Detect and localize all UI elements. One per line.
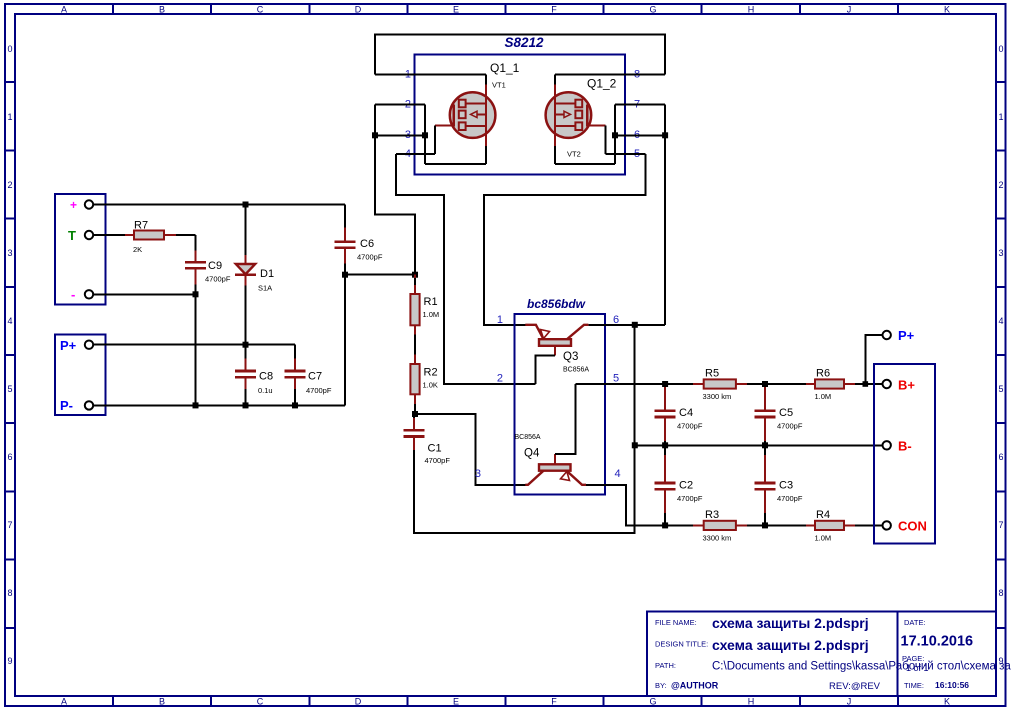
wire pin6 row (615, 134, 665, 136)
terminal + (85, 200, 93, 208)
svg-text:4700pF: 4700pF (306, 386, 332, 395)
wire + rail (93, 205, 345, 228)
S8212 component box (415, 55, 626, 175)
capacitor C4 (655, 387, 703, 445)
capacitor C7 (284, 359, 331, 396)
wire Q3 base to pin2 row (535, 355, 555, 384)
node R2/C1/Q4-emitter (412, 411, 418, 417)
svg-text:bc856bdw: bc856bdw (527, 297, 586, 311)
svg-text:R3: R3 (705, 509, 719, 521)
svg-text:R1: R1 (424, 296, 438, 308)
wire R7 to C9 (176, 235, 196, 251)
svg-text:4700pF: 4700pF (425, 456, 451, 465)
svg-text:1.0K: 1.0K (423, 381, 438, 390)
terminal B+ (883, 378, 916, 393)
svg-text:1.0M: 1.0M (815, 392, 832, 401)
S8212 dual-MOSFET block U1 (375, 35, 665, 175)
svg-text:F: F (551, 5, 557, 15)
svg-text:3300 km: 3300 km (703, 534, 732, 543)
svg-text:K: K (944, 5, 950, 15)
wire right inner vertical (pin7 to source rail) (555, 105, 615, 165)
svg-text:4700pF: 4700pF (205, 275, 231, 284)
wire pin7 row (615, 104, 665, 106)
wire junction to Q4 emitter (bc856 pin3) (415, 414, 525, 485)
svg-text:A: A (61, 697, 67, 707)
svg-text:C8: C8 (259, 371, 273, 383)
wire - rail (93, 293, 195, 295)
svg-text:B-: B- (898, 439, 912, 454)
svg-text:Q1_2: Q1_2 (587, 77, 617, 91)
node pin6 left (612, 132, 618, 138)
capacitor C9 (185, 251, 231, 285)
svg-text:BC856A: BC856A (563, 367, 589, 374)
wire pin5/B+ row (575, 383, 693, 385)
svg-text:D: D (355, 697, 362, 707)
svg-text:0: 0 (998, 44, 1003, 54)
capacitor C8 (235, 359, 273, 396)
capacitor C2 (655, 445, 703, 525)
wire R4 to CON terminal (855, 524, 883, 526)
wire P- rail (93, 275, 345, 406)
svg-text:H: H (748, 5, 755, 15)
wire top loop pin1-pin8 (375, 35, 665, 75)
node R3/C2 (662, 522, 668, 528)
capacitor C3 (754, 445, 802, 525)
svg-text:R7: R7 (134, 220, 148, 232)
svg-text:2: 2 (497, 373, 503, 385)
svg-text:FILE NAME:: FILE NAME: (655, 618, 697, 627)
svg-text:7: 7 (998, 520, 1003, 530)
node D1/C8/P+ junction (243, 342, 249, 348)
wire pin4 loop down to bc856 pin2 (396, 154, 535, 384)
svg-text:2: 2 (998, 180, 1003, 190)
title block (647, 612, 1011, 697)
wire P+ rail (93, 345, 295, 359)
svg-text:8: 8 (998, 588, 1003, 598)
wire Q4 base riser to pin5 row (555, 384, 575, 454)
svg-text:BC856A: BC856A (515, 434, 541, 441)
terminal - (85, 290, 93, 298)
svg-text:J: J (847, 697, 852, 707)
svg-text:C6: C6 (360, 238, 374, 250)
svg-text:+: + (70, 198, 77, 212)
resistor R6 (806, 368, 855, 402)
wire R5 to C5 node (747, 383, 806, 385)
svg-text:4: 4 (7, 316, 12, 326)
svg-text:1: 1 (998, 112, 1003, 122)
svg-text:J: J (847, 5, 852, 15)
wire C7 bottom (294, 389, 296, 405)
node pin6 right (662, 132, 668, 138)
connector block J2 (P+ P-) (55, 335, 106, 416)
svg-text:1.0M: 1.0M (815, 534, 832, 543)
svg-text:VT1: VT1 (492, 81, 506, 90)
svg-text:2: 2 (7, 180, 12, 190)
svg-text:R5: R5 (705, 368, 719, 380)
svg-text:5: 5 (998, 384, 1003, 394)
terminal T (85, 231, 93, 239)
wire pin1 row to Q1_1 drain (375, 74, 486, 84)
svg-text:G: G (649, 5, 656, 15)
svg-text:F: F (551, 697, 557, 707)
svg-text:@AUTHOR: @AUTHOR (671, 681, 719, 691)
svg-text:CON: CON (898, 519, 927, 534)
wire pin5 row with gate riser (605, 125, 645, 154)
MOSFET Q1_2 (VT2) (546, 85, 606, 149)
svg-text:Q1_1: Q1_1 (490, 61, 520, 75)
svg-text:A: A (61, 5, 67, 15)
svg-text:2K: 2K (133, 245, 142, 254)
terminal P- (85, 401, 93, 409)
node R5/R6/C5 (762, 381, 768, 387)
svg-text:D: D (355, 5, 362, 15)
svg-text:8: 8 (7, 588, 12, 598)
wire P+ riser (865, 335, 882, 384)
node B- left end (632, 442, 638, 448)
wire C1 bottom loop to B- junction (414, 445, 635, 533)
svg-text:P+: P+ (60, 338, 77, 353)
svg-text:C4: C4 (679, 407, 693, 419)
svg-text:C7: C7 (308, 371, 322, 383)
resistor R4 (806, 509, 855, 543)
wire R6 to B+ terminal (855, 383, 883, 385)
wire B- row (635, 444, 883, 446)
wire pin4 row with gate riser (396, 125, 435, 154)
resistor R3 (693, 509, 747, 543)
terminal P+ right (883, 328, 915, 343)
svg-text:3: 3 (998, 248, 1003, 258)
svg-text:T: T (68, 228, 76, 243)
svg-text:REV:@REV: REV:@REV (829, 681, 881, 692)
svg-text:E: E (453, 697, 459, 707)
svg-text:R4: R4 (816, 509, 830, 521)
svg-text:6: 6 (998, 452, 1003, 462)
capacitor C5 (754, 387, 802, 445)
svg-text:E: E (453, 5, 459, 15)
svg-text:4700pF: 4700pF (777, 494, 803, 503)
svg-text:1: 1 (497, 314, 503, 326)
svg-text:4700pF: 4700pF (777, 422, 803, 431)
svg-text:BY:: BY: (655, 681, 667, 690)
svg-text:0.1u: 0.1u (258, 386, 273, 395)
svg-text:4: 4 (615, 468, 621, 480)
svg-text:H: H (748, 697, 755, 707)
svg-text:C5: C5 (779, 407, 793, 419)
svg-text:C3: C3 (779, 480, 793, 492)
terminal B- (883, 439, 912, 454)
transistor Q4 (BC856A) (515, 434, 587, 485)
svg-text:1.0M: 1.0M (423, 310, 440, 319)
svg-text:C1: C1 (428, 443, 442, 455)
svg-text:Q4: Q4 (524, 448, 540, 460)
svg-text:4700pF: 4700pF (357, 253, 383, 262)
svg-text:K: K (944, 697, 950, 707)
wire left inner vertical (pin2 to source rail) (425, 105, 486, 165)
svg-text:7: 7 (7, 520, 12, 530)
node C6/R1 (412, 272, 418, 278)
svg-text:C9: C9 (208, 260, 222, 272)
svg-text:DATE:: DATE: (904, 618, 926, 627)
wire pin6 row Q3 collector to right drop (588, 324, 665, 326)
resistor R2 (410, 355, 438, 405)
svg-text:3300 km: 3300 km (703, 392, 732, 401)
svg-text:C: C (257, 5, 264, 15)
svg-text:схема защиты 2.pdsprj: схема защиты 2.pdsprj (712, 637, 869, 653)
svg-text:R6: R6 (816, 368, 830, 380)
node B-/C4/C2 (662, 442, 668, 448)
svg-text:3: 3 (7, 248, 12, 258)
node + / D1 anode (243, 202, 249, 208)
node P-/C8 (243, 402, 249, 408)
svg-text:9: 9 (7, 656, 12, 666)
svg-text:3: 3 (475, 468, 481, 480)
node B-/C5/C3 (762, 442, 768, 448)
svg-text:5: 5 (613, 373, 619, 385)
svg-text:B: B (159, 697, 165, 707)
wire pin5 loop down to bc856 pin1 (484, 154, 645, 325)
svg-text:PATH:: PATH: (655, 661, 676, 670)
wire C9 bottom down to P- rail (195, 285, 197, 406)
svg-text:6: 6 (7, 452, 12, 462)
svg-text:17.10.2016: 17.10.2016 (901, 634, 974, 650)
connector block J1 (+ T -) (55, 194, 106, 305)
bc856bdw dual-transistor block (475, 297, 621, 495)
wire R3 to C3 node (747, 524, 806, 526)
wire long left drop pin2/3 net to R1 top (375, 105, 415, 275)
svg-text:5: 5 (7, 384, 12, 394)
svg-text:Q3: Q3 (563, 351, 578, 363)
svg-text:D1: D1 (260, 268, 274, 280)
svg-text:R2: R2 (424, 367, 438, 379)
node pin3 right (422, 132, 428, 138)
node C6/P- (342, 272, 348, 278)
svg-text:0: 0 (7, 44, 12, 54)
svg-text:S8212: S8212 (504, 35, 544, 50)
right connector box (874, 364, 935, 544)
wire pin7 corner down to pin6 (664, 105, 666, 136)
node B+/P+ riser (863, 381, 869, 387)
diode D1 (235, 255, 274, 293)
svg-text:1: 1 (7, 112, 12, 122)
wire pin8 row to Q1_2 drain (555, 74, 665, 84)
wire right long drop pin6 net to bc856 pin6 (664, 135, 666, 324)
node pin3 left (372, 132, 378, 138)
wire R1 to R2 (414, 335, 416, 355)
svg-text:C:\Documents and Settings\kass: C:\Documents and Settings\kassa\Рабочий … (712, 661, 1011, 673)
svg-text:DESIGN TITLE:: DESIGN TITLE: (655, 640, 708, 649)
svg-text:4700pF: 4700pF (677, 422, 703, 431)
svg-text:16:10:56: 16:10:56 (935, 680, 969, 690)
svg-text:VT2: VT2 (567, 150, 581, 159)
node P-/C7 (292, 402, 298, 408)
svg-text:P-: P- (60, 398, 73, 413)
wire pin2 row (375, 104, 425, 106)
node R3/R4/C3 (762, 522, 768, 528)
svg-text:C2: C2 (679, 480, 693, 492)
resistor R7 (125, 220, 176, 255)
node P-/C9 (193, 402, 199, 408)
terminal CON (883, 519, 927, 534)
svg-text:4: 4 (998, 316, 1003, 326)
svg-text:C: C (257, 697, 264, 707)
svg-text:G: G (649, 697, 656, 707)
wire R2 bottom to junction (414, 404, 416, 414)
node pin5/C4/R5 (662, 381, 668, 387)
wire D1 vertical (anode top / cathode bottom through P+ row) (245, 205, 247, 406)
resistor R1 (410, 275, 439, 335)
resistor R5 (693, 368, 747, 402)
node C9/- junction (193, 291, 199, 297)
wire pin3 row (375, 134, 425, 136)
svg-text:B: B (159, 5, 165, 15)
svg-text:S1A: S1A (258, 284, 272, 293)
terminal P+ (85, 341, 93, 349)
svg-text:B+: B+ (898, 378, 915, 393)
svg-text:схема защиты 2.pdsprj: схема защиты 2.pdsprj (712, 615, 869, 631)
capacitor C1 (403, 414, 450, 465)
wire T to R7 (93, 234, 125, 236)
transistor Q3 (BC856A) (525, 325, 589, 374)
svg-text:4700pF: 4700pF (677, 494, 703, 503)
wire Q4 collector to R3 row (586, 485, 693, 526)
svg-text:TIME:: TIME: (904, 681, 924, 690)
MOSFET Q1_1 (VT1) (435, 85, 496, 149)
node pin6 / B- drop (632, 322, 638, 328)
capacitor C6 (334, 228, 382, 264)
wire pin6 drop to B- row and C1 loop (634, 325, 636, 446)
svg-text:-: - (71, 287, 75, 302)
svg-text:P+: P+ (898, 328, 915, 343)
wire C6 bottom row to R1 top (345, 264, 415, 275)
